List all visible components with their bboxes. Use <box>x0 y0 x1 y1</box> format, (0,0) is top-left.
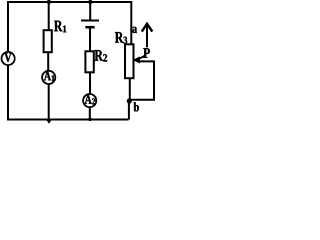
voltmeter V <box>2 52 15 65</box>
wire A2 to bottom <box>89 107 91 120</box>
wire battery branch top <box>89 2 91 20</box>
label P <box>143 48 150 58</box>
label A2 <box>85 95 96 104</box>
node arrow bottom A1 <box>46 119 53 124</box>
wire left border <box>7 1 9 120</box>
wire R1 to A1 <box>47 52 49 71</box>
wire R1 branch top <box>48 2 50 31</box>
wire top border <box>8 1 132 3</box>
battery short plate <box>85 26 94 29</box>
label R3 <box>115 32 127 44</box>
resistor R2 <box>85 51 93 72</box>
node label a <box>132 27 137 33</box>
wiper link to P <box>137 56 144 60</box>
wire battery to R2 <box>89 28 91 52</box>
label R1 <box>54 21 66 32</box>
node dot top battery branch <box>88 0 92 4</box>
node dot top R1 branch <box>47 0 51 4</box>
wire A1 to bottom <box>48 84 50 120</box>
arrow up P direction shaft <box>146 25 148 48</box>
wiper arrowhead on R3 <box>133 56 140 63</box>
battery long plate <box>81 20 99 22</box>
arrow up P direction head <box>142 24 153 32</box>
label R2 <box>95 50 108 61</box>
wire b to bottom corner <box>128 101 130 120</box>
rheostat R3 <box>125 44 134 78</box>
node dot bottom A2 <box>88 118 92 122</box>
wire bottom border <box>7 119 129 121</box>
wire wiper to node b <box>129 61 154 99</box>
ammeter A1 <box>42 71 55 84</box>
wire R2 to A2 <box>89 72 91 94</box>
label A1 <box>44 72 54 81</box>
label V <box>5 53 12 62</box>
wire R3 branch top <box>130 1 132 45</box>
node dot b <box>127 98 132 103</box>
ammeter A2 <box>83 94 96 107</box>
resistor R1 <box>44 30 52 52</box>
wire R3 to node b <box>129 78 131 100</box>
node label b <box>134 102 139 111</box>
